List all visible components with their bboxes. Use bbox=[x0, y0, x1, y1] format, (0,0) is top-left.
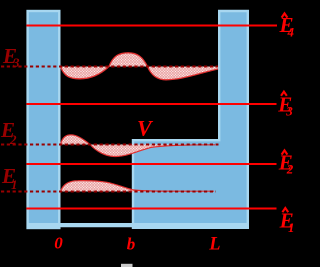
label E-hat-4 (right) bbox=[279, 13, 295, 40]
svg-text:L: L bbox=[208, 234, 220, 254]
svg-text:1: 1 bbox=[288, 220, 295, 235]
wavefunction psi2 at E2 bbox=[61, 135, 216, 157]
svg-text:2: 2 bbox=[9, 132, 17, 147]
well floor line bbox=[27, 223, 248, 227]
svg-text:1: 1 bbox=[11, 177, 18, 192]
energy level line E-hat-4 bbox=[26, 25, 277, 27]
wavefunction psi3 at E3 bbox=[61, 53, 219, 80]
energy level line E-hat-2 bbox=[26, 163, 276, 165]
wavefunction psi1 at E1 bbox=[61, 181, 215, 192]
left infinite wall (x=0) bbox=[28, 11, 60, 228]
svg-text:0: 0 bbox=[54, 234, 63, 253]
dashed energy line E2 bbox=[1, 144, 219, 146]
label E-hat-2 (right) bbox=[278, 150, 294, 176]
label E-hat-3 (right) bbox=[277, 92, 293, 119]
energy level line E-hat-1 bbox=[26, 208, 276, 210]
gray marker bottom bbox=[121, 264, 133, 267]
svg-text:2: 2 bbox=[286, 162, 294, 177]
label E-hat-1 (right) bbox=[279, 208, 295, 235]
label E3 (left) bbox=[2, 44, 20, 70]
dashed energy line E3 bbox=[1, 66, 218, 68]
dashed energy line E1 bbox=[1, 191, 216, 193]
svg-text:3: 3 bbox=[12, 55, 20, 70]
label E1 (left) bbox=[1, 164, 18, 192]
label E2 (left) bbox=[0, 118, 17, 147]
svg-text:4: 4 bbox=[287, 25, 295, 40]
svg-text:b: b bbox=[127, 235, 136, 254]
right wall with potential step V (x=b to L and wall at L) bbox=[133, 11, 248, 228]
svg-text:V: V bbox=[137, 115, 154, 140]
svg-text:3: 3 bbox=[285, 103, 293, 118]
energy level line E-hat-3 bbox=[26, 103, 276, 105]
